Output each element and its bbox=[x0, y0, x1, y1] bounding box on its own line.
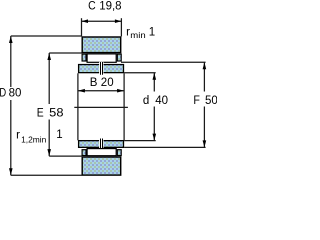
svg-text:80: 80 bbox=[9, 87, 22, 99]
svg-text:D: D bbox=[0, 87, 6, 99]
svg-text:min: min bbox=[130, 30, 146, 40]
svg-text:1: 1 bbox=[56, 129, 62, 141]
svg-text:1: 1 bbox=[149, 26, 155, 38]
svg-text:r: r bbox=[16, 130, 20, 142]
svg-text:58: 58 bbox=[49, 108, 63, 120]
svg-text:F: F bbox=[193, 95, 200, 107]
svg-text:C: C bbox=[88, 1, 96, 13]
svg-text:E: E bbox=[37, 108, 44, 120]
svg-text:B: B bbox=[90, 77, 98, 89]
svg-text:50: 50 bbox=[205, 95, 217, 107]
svg-text:19,8: 19,8 bbox=[99, 1, 121, 13]
svg-text:d: d bbox=[143, 95, 149, 107]
svg-text:1,2min: 1,2min bbox=[21, 134, 46, 144]
svg-text:20: 20 bbox=[101, 77, 114, 89]
svg-text:40: 40 bbox=[155, 95, 168, 107]
